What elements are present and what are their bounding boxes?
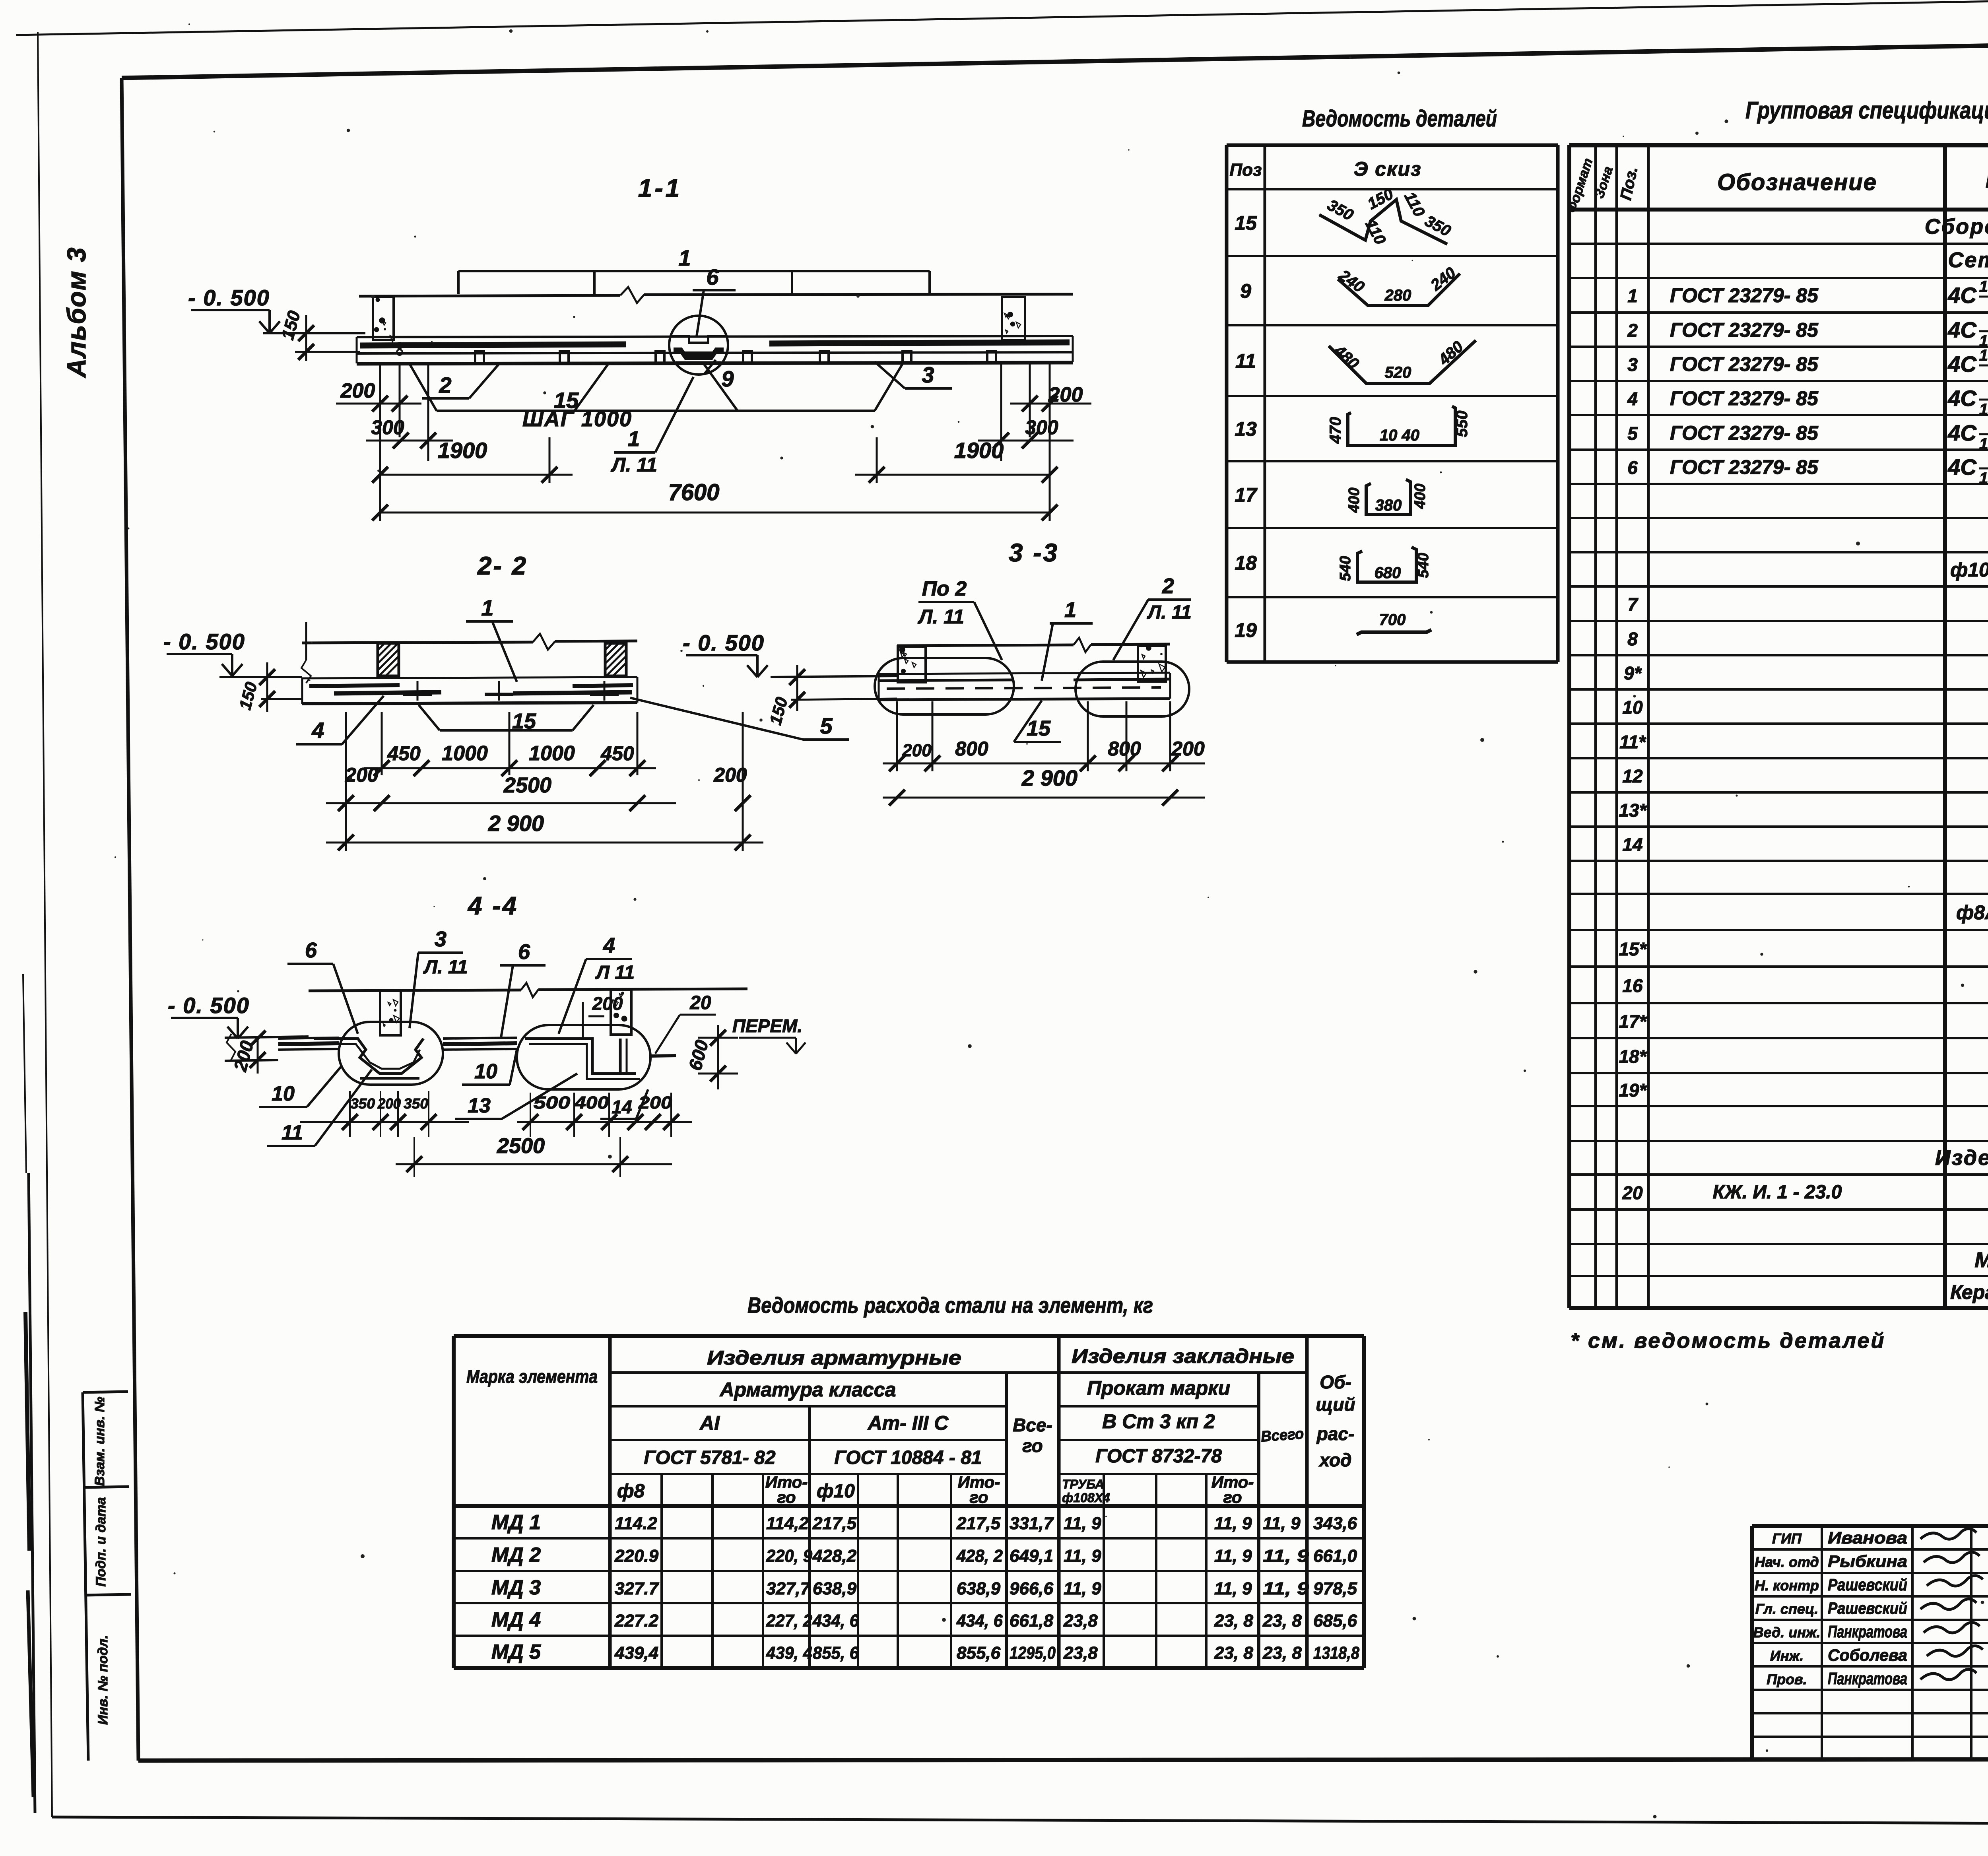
svg-text:16: 16 <box>1622 975 1643 996</box>
svg-text:470: 470 <box>1327 417 1344 444</box>
spec row поз.20 МН9 <box>1622 1180 1988 1203</box>
svg-text:343,6: 343,6 <box>1313 1514 1357 1533</box>
svg-text:661,0: 661,0 <box>1313 1546 1357 1566</box>
svg-text:540: 540 <box>1415 553 1432 578</box>
svg-text:10 40: 10 40 <box>1380 427 1419 444</box>
section 4-4 dimension chains (350/200/350, 500/400, 200, 2500) <box>300 1091 692 1177</box>
signature row Нач. отд Рыбкина <box>1755 1552 1980 1571</box>
section 3-3 left wall block (concrete) <box>898 646 926 682</box>
spec row поз.9* <box>1624 662 1988 683</box>
svg-text:240: 240 <box>1336 266 1368 296</box>
svg-text:Рашевский: Рашевский <box>1828 1599 1907 1617</box>
svg-text:217,5: 217,5 <box>812 1514 857 1533</box>
svg-text:Наименование: Наименование <box>1986 167 1988 193</box>
svg-text:1: 1 <box>481 595 493 620</box>
svg-text:Ведомость деталей: Ведомость деталей <box>1302 106 1497 132</box>
spec row поз.11* <box>1619 731 1988 752</box>
svg-text:327,7: 327,7 <box>766 1579 811 1598</box>
section 1-1 central joint detail circle <box>669 316 728 375</box>
svg-text:Поз.: Поз. <box>1617 165 1641 202</box>
svg-text:3: 3 <box>922 362 934 387</box>
svg-text:15: 15 <box>1027 716 1051 740</box>
spec row поз.3 <box>1627 347 1988 384</box>
svg-text:200: 200 <box>638 1093 672 1112</box>
section 3-3 label 1 <box>1042 598 1093 681</box>
section 2-2 label 4 <box>296 696 384 744</box>
details list table frame <box>1227 145 1558 662</box>
section 4-4 label 6 (left) <box>287 938 358 1034</box>
svg-text:Сетки арматурные: Сетки арматурные <box>1948 248 1988 272</box>
svg-text:Сборочные единицы: Сборочные единицы <box>1925 215 1988 239</box>
svg-text:Об-: Об- <box>1320 1372 1351 1392</box>
spec row поз.18* <box>1619 1045 1988 1067</box>
svg-text:500: 500 <box>534 1093 571 1112</box>
svg-text:380: 380 <box>1375 497 1402 514</box>
svg-text:150: 150 <box>235 680 261 712</box>
svg-text:800: 800 <box>955 738 988 760</box>
svg-text:434, 6: 434, 6 <box>812 1611 859 1631</box>
svg-text:ГОСТ 23279- 85: ГОСТ 23279- 85 <box>1670 387 1819 410</box>
section 4-4 right wall block (concrete) <box>611 990 631 1035</box>
svg-text:13: 13 <box>1235 418 1257 440</box>
svg-text:Нач. отд: Нач. отд <box>1755 1554 1819 1570</box>
svg-text:ф10: ф10 <box>817 1481 855 1502</box>
svg-text:2 900: 2 900 <box>488 811 544 836</box>
steel table row МД 5 <box>491 1641 1360 1664</box>
sketch pos.17: U-bar with hooks 400/380/400 <box>1346 480 1429 514</box>
svg-text:Л. 11: Л. 11 <box>611 454 657 476</box>
svg-text:ПЕРЕМ.: ПЕРЕМ. <box>732 1015 802 1036</box>
signature row Инж. Соболева <box>1770 1646 1983 1664</box>
svg-text:4С: 4С <box>1947 420 1977 445</box>
svg-text:11, 9: 11, 9 <box>1064 1579 1101 1598</box>
svg-text:331,7: 331,7 <box>1010 1514 1054 1533</box>
svg-text:15*: 15* <box>1619 939 1647 959</box>
spec row поз.12 <box>1622 765 1988 786</box>
spec row поз.7 <box>1627 593 1988 615</box>
svg-text:600: 600 <box>684 1038 712 1073</box>
svg-text:Все-: Все- <box>1013 1415 1052 1435</box>
section 3-3 label По 2 / Л.11 <box>918 577 1002 660</box>
svg-text:Всего: Всего <box>1260 1425 1305 1445</box>
sketch pos.11: trough bar 480/520/480 <box>1329 338 1476 383</box>
svg-text:ГОСТ 23279- 85: ГОСТ 23279- 85 <box>1670 422 1819 444</box>
svg-text:23, 8: 23, 8 <box>1262 1611 1302 1631</box>
svg-text:Панкратова: Панкратова <box>1828 1622 1907 1641</box>
section 1-1 left wall block (concrete) <box>373 297 394 340</box>
svg-text:1: 1 <box>1627 285 1638 306</box>
svg-text:1900: 1900 <box>438 438 487 463</box>
svg-text:ТРУБА: ТРУБА <box>1062 1477 1104 1491</box>
svg-text:КЖ. И. 1 - 23.0: КЖ. И. 1 - 23.0 <box>1713 1182 1842 1203</box>
svg-text:1: 1 <box>678 245 691 270</box>
svg-text:11, 9: 11, 9 <box>1263 1546 1309 1566</box>
svg-text:ГОСТ 23279- 85: ГОСТ 23279- 85 <box>1670 284 1819 307</box>
svg-text:10Ат-IIIС-200: 10Ат-IIIС-200 <box>1979 435 1988 453</box>
svg-text:700: 700 <box>1379 611 1406 629</box>
svg-text:10Ат-IIIС-200: 10Ат-IIIС-200 <box>1979 401 1988 418</box>
section 4-4 label 4 / Л.11 <box>559 934 635 1034</box>
section 1-1 floor level line <box>359 287 1073 303</box>
svg-text:17*: 17* <box>1619 1011 1647 1032</box>
svg-text:327.7: 327.7 <box>615 1579 660 1598</box>
section 2-2 right wall block (hatched) <box>605 643 626 676</box>
svg-text:428,2: 428,2 <box>812 1546 857 1566</box>
title block signature grid <box>1752 1526 1988 1760</box>
svg-text:649,1: 649,1 <box>1010 1546 1053 1566</box>
section 1-1 label 1/Л.11 <box>611 377 693 476</box>
svg-text:11: 11 <box>1235 350 1256 372</box>
section 4-4 small dims 200 / 20 / ПЕРЕМ. / 600 <box>583 992 806 1089</box>
svg-text:114,2: 114,2 <box>766 1514 809 1533</box>
svg-text:10: 10 <box>1622 697 1643 718</box>
svg-text:Изделия закладные: Изделия закладные <box>1935 1146 1988 1170</box>
svg-text:Л. 11: Л. 11 <box>423 957 468 978</box>
svg-text:1: 1 <box>628 427 640 451</box>
section 1-1 elevation mark -0.500 <box>188 285 365 361</box>
svg-text:520: 520 <box>1385 364 1411 381</box>
svg-text:ГОСТ 23279- 85: ГОСТ 23279- 85 <box>1670 353 1819 375</box>
svg-text:18*: 18* <box>1619 1046 1647 1067</box>
section 3-3 right pill detail outline <box>1076 662 1189 716</box>
svg-text:Н. контр: Н. контр <box>1755 1577 1819 1594</box>
svg-text:2: 2 <box>439 373 451 398</box>
svg-text:4: 4 <box>603 934 615 957</box>
svg-text:4: 4 <box>1627 388 1638 409</box>
section 2-2 elevation mark -0.500 <box>163 629 302 712</box>
svg-text:го: го <box>1022 1435 1043 1456</box>
svg-text:550: 550 <box>1453 411 1471 437</box>
section 1-1 label 3 <box>875 362 952 388</box>
svg-text:ход: ход <box>1318 1450 1352 1470</box>
svg-text:800: 800 <box>1108 738 1141 760</box>
svg-text:- 0. 500: - 0. 500 <box>683 630 765 655</box>
svg-text:Рашевский: Рашевский <box>1828 1575 1907 1594</box>
svg-text:10: 10 <box>272 1082 295 1105</box>
svg-text:ф8: ф8 <box>617 1481 645 1502</box>
section 1-1 dimension chain left (200/300/1900/7600) <box>336 362 1058 521</box>
svg-text:По 2: По 2 <box>922 577 967 600</box>
svg-text:434, 6: 434, 6 <box>956 1611 1003 1631</box>
svg-text:Изделия закладные: Изделия закладные <box>1072 1345 1294 1367</box>
svg-text:400: 400 <box>574 1093 609 1112</box>
svg-text:11: 11 <box>282 1121 303 1144</box>
svg-text:Э скиз: Э скиз <box>1353 158 1421 180</box>
svg-text:4С: 4С <box>1947 454 1977 480</box>
svg-text:638,9: 638,9 <box>813 1579 857 1598</box>
section 4-4 center wall block (concrete) <box>380 991 401 1035</box>
svg-text:11, 9: 11, 9 <box>1214 1514 1252 1533</box>
svg-text:Л 11: Л 11 <box>595 962 635 983</box>
svg-text:14: 14 <box>612 1097 632 1117</box>
section 2-2 floor level line with break <box>301 622 637 683</box>
svg-text:Панкратова: Панкратова <box>1828 1669 1907 1688</box>
spec row поз.5 <box>1627 415 1988 454</box>
svg-text:20: 20 <box>689 992 711 1013</box>
svg-text:1318,8: 1318,8 <box>1313 1643 1359 1663</box>
svg-text:В Ст 3 кп 2: В Ст 3 кп 2 <box>1102 1410 1215 1433</box>
svg-text:685,6: 685,6 <box>1313 1611 1357 1631</box>
svg-text:4С: 4С <box>1947 317 1977 342</box>
svg-text:АI: АI <box>699 1412 720 1434</box>
svg-text:13: 13 <box>468 1094 491 1117</box>
spec row поз.17* <box>1619 1010 1988 1032</box>
svg-text:10Ат-IIIС-200: 10Ат-IIIС-200 <box>1979 278 1988 295</box>
section 3-3 floor level line with break <box>897 638 1170 652</box>
svg-text:7: 7 <box>1627 594 1639 615</box>
section 2-2 left wall block (hatched) <box>378 643 399 676</box>
steel table row МД 1 <box>491 1511 1357 1534</box>
svg-text:12: 12 <box>1622 766 1643 786</box>
svg-text:щий: щий <box>1316 1394 1355 1415</box>
svg-text:855, 6: 855, 6 <box>813 1643 859 1663</box>
svg-text:ф108X4: ф108X4 <box>1062 1491 1110 1505</box>
svg-text:1-1: 1-1 <box>638 174 682 202</box>
svg-text:110: 110 <box>1401 189 1428 219</box>
section 3-3 slab body <box>879 673 1170 700</box>
section 2-2 dimension chain (450/1000/1000/450, 2500, 200, 2900) <box>326 712 763 851</box>
svg-text:4: 4 <box>311 718 324 743</box>
svg-text:8: 8 <box>1627 629 1638 649</box>
svg-text:ф8АI ГОСТ 5781- 82: ф8АI ГОСТ 5781- 82 <box>1956 901 1988 924</box>
section 1-1 right wall block (concrete) <box>1002 297 1025 340</box>
svg-text:9*: 9* <box>1624 663 1642 683</box>
svg-text:Ведомость расхода стали на эле: Ведомость расхода стали на элемент, кг <box>747 1293 1153 1318</box>
svg-text:11, 9: 11, 9 <box>1263 1514 1301 1533</box>
left margin stamp strip (Взам.инв / Подп.и дата / Инв.№ подл) <box>83 1392 131 1761</box>
sketch pos.9: shallow trough bar 240/280/240 <box>1336 264 1460 305</box>
svg-text:3 -3: 3 -3 <box>1009 538 1059 567</box>
spec row поз.1 <box>1627 278 1988 316</box>
svg-text:10Ат-IIIС-200: 10Ат-IIIС-200 <box>1979 347 1988 364</box>
section 1-1 panel bracket with label 1 <box>458 245 930 294</box>
svg-text:220, 9: 220, 9 <box>766 1546 812 1566</box>
signature row Гл. спец. Рашевский <box>1755 1599 1976 1617</box>
svg-text:439,4: 439,4 <box>614 1643 658 1663</box>
section 1-1 label 6 with leader <box>693 264 736 336</box>
svg-text:ф10-Ат-IIIС ГОСТ 10884- 81: ф10-Ат-IIIС ГОСТ 10884- 81 <box>1950 559 1988 581</box>
spec row поз.13* <box>1619 799 1988 821</box>
spec row поз.2 <box>1627 313 1988 350</box>
svg-text:1000: 1000 <box>529 742 575 765</box>
spec row поз.6 <box>1627 450 1988 487</box>
svg-text:428, 2: 428, 2 <box>956 1546 1003 1566</box>
svg-text:6: 6 <box>305 938 317 962</box>
svg-text:23,8: 23,8 <box>1063 1643 1098 1663</box>
spec row поз.14 <box>1622 833 1988 855</box>
svg-text:Альбом 3: Альбом 3 <box>62 247 91 379</box>
svg-text:Л. 11: Л. 11 <box>918 606 964 628</box>
svg-text:11, 9: 11, 9 <box>1263 1579 1309 1598</box>
svg-text:680: 680 <box>1375 564 1401 582</box>
section 1-1 label 2 <box>422 363 500 398</box>
svg-text:6: 6 <box>706 264 719 289</box>
svg-text:2- 2: 2- 2 <box>477 551 528 580</box>
svg-text:ГОСТ 23279- 85: ГОСТ 23279- 85 <box>1670 456 1819 478</box>
svg-text:23,8: 23,8 <box>1063 1611 1098 1631</box>
spec row поз.15* <box>1619 938 1988 959</box>
svg-text:11, 9: 11, 9 <box>1214 1546 1252 1566</box>
svg-text:6: 6 <box>1627 457 1638 478</box>
steel table headers <box>466 1345 1355 1507</box>
section 1-1 stirrup marks <box>475 351 996 362</box>
svg-text:Пров.: Пров. <box>1767 1671 1807 1687</box>
svg-text:280: 280 <box>1384 287 1411 304</box>
svg-text:480: 480 <box>1330 342 1362 373</box>
spec table column headers <box>1564 152 1988 215</box>
svg-text:18: 18 <box>1235 552 1257 574</box>
svg-text:400: 400 <box>1412 483 1429 509</box>
svg-text:14: 14 <box>1622 834 1642 855</box>
svg-text:350: 350 <box>404 1095 428 1112</box>
svg-text:439, 4: 439, 4 <box>766 1643 812 1663</box>
section 2-2 label 1 with leader <box>466 595 517 682</box>
svg-text:2 900: 2 900 <box>1021 765 1077 790</box>
sketch pos.19: straight bar 700 <box>1357 611 1431 635</box>
section 4-4 upper floor line with break <box>309 983 747 997</box>
svg-text:Инж.: Инж. <box>1770 1648 1804 1664</box>
svg-text:ГОСТ 23279- 85: ГОСТ 23279- 85 <box>1670 319 1819 341</box>
svg-text:9: 9 <box>1240 280 1251 302</box>
signature row ГИП Иванова <box>1772 1528 1976 1547</box>
svg-text:23, 8: 23, 8 <box>1262 1643 1302 1663</box>
steel consumption table grid <box>454 1336 1364 1668</box>
svg-text:Иванова: Иванова <box>1828 1528 1907 1547</box>
spec row поз.4 <box>1627 381 1988 419</box>
svg-text:200: 200 <box>340 379 375 402</box>
svg-text:ГИП: ГИП <box>1772 1530 1802 1547</box>
spec row поз.19* <box>1619 1079 1988 1101</box>
spec row поз.10 <box>1622 696 1988 718</box>
svg-text:17: 17 <box>1235 484 1258 506</box>
svg-text:1295,0: 1295,0 <box>1010 1643 1056 1663</box>
svg-text:4С: 4С <box>1947 351 1977 377</box>
svg-text:Изделия арматурные: Изделия арматурные <box>707 1347 961 1369</box>
section 4-4 slab between pills <box>278 1038 676 1056</box>
section 2-2 шаг marker trapezoid with label 15 <box>419 705 594 733</box>
svg-text:300: 300 <box>371 416 404 439</box>
svg-text:15: 15 <box>1235 212 1257 234</box>
svg-text:6: 6 <box>518 940 530 964</box>
section 2-2 slab body with rebar <box>302 677 637 704</box>
section 4-4 right pill detail <box>517 1025 650 1089</box>
svg-text:20: 20 <box>1622 1182 1643 1203</box>
svg-text:966,6: 966,6 <box>1010 1579 1054 1598</box>
svg-text:23, 8: 23, 8 <box>1214 1643 1253 1663</box>
svg-text:Соболева: Соболева <box>1828 1646 1907 1664</box>
svg-text:450: 450 <box>387 742 421 765</box>
svg-text:13*: 13* <box>1619 800 1647 821</box>
svg-text:4С: 4С <box>1947 283 1977 308</box>
svg-text:го: го <box>777 1488 796 1507</box>
section 4-4 labels 10/11/13/14/10 <box>259 1050 648 1146</box>
svg-text:1000: 1000 <box>442 742 488 765</box>
section 3-3 label 2 / Л.11 <box>1113 574 1192 660</box>
svg-text:Подп. и дата: Подп. и дата <box>93 1497 109 1586</box>
svg-text:855,6: 855,6 <box>957 1643 1001 1663</box>
section 3-3 dimension chain (800/200/800, 800, 200, 2900) <box>883 701 1205 806</box>
section 1-1 label 9 <box>705 360 734 391</box>
svg-text:Арматура класса: Арматура класса <box>719 1378 896 1401</box>
svg-text:9: 9 <box>721 366 734 391</box>
svg-text:Поз: Поз <box>1230 160 1262 180</box>
svg-text:240: 240 <box>1427 264 1459 294</box>
svg-text:350: 350 <box>1422 212 1454 240</box>
svg-text:114.2: 114.2 <box>615 1514 657 1533</box>
svg-text:217,5: 217,5 <box>956 1514 1001 1533</box>
svg-text:рас-: рас- <box>1316 1423 1355 1444</box>
svg-text:МД 4: МД 4 <box>491 1608 541 1631</box>
svg-text:7600: 7600 <box>668 480 719 505</box>
svg-text:ГОСТ 10884 - 81: ГОСТ 10884 - 81 <box>834 1447 982 1468</box>
svg-text:150: 150 <box>766 695 791 727</box>
svg-text:ГОСТ 8732-78: ГОСТ 8732-78 <box>1095 1446 1222 1467</box>
svg-text:227, 2: 227, 2 <box>766 1611 812 1631</box>
section 4-4 elevation mark -0.500 <box>168 993 266 1074</box>
svg-text:Материалы: Материалы <box>1974 1248 1988 1272</box>
signature row Н. контр Рашевский <box>1755 1575 1983 1594</box>
svg-text:200: 200 <box>592 993 623 1014</box>
spec row: Керамзитобетон кл. В 15 <box>1950 1281 1988 1303</box>
svg-text:10Ат-IIIС-200: 10Ат-IIIС-200 <box>1979 470 1988 487</box>
svg-text:- 0. 500: - 0. 500 <box>168 993 250 1018</box>
svg-text:Гл. спец.: Гл. спец. <box>1755 1601 1818 1617</box>
section 4-4 left break edge <box>225 1034 309 1061</box>
sketch pos.15: Z-bent bar 350/110/150/110/350 <box>1319 185 1454 247</box>
svg-text:200: 200 <box>713 764 747 786</box>
svg-text:5: 5 <box>1627 423 1638 444</box>
svg-text:661,8: 661,8 <box>1010 1611 1054 1631</box>
section 3-3 left pill detail outline <box>875 658 1014 714</box>
signature row Пров. Панкратова <box>1767 1669 1976 1688</box>
svg-text:4 -4: 4 -4 <box>467 891 518 920</box>
svg-text:- 0. 500: - 0. 500 <box>163 629 245 654</box>
svg-text:Вед. инж.: Вед. инж. <box>1753 1624 1821 1641</box>
section 2-2 label 5 <box>630 698 849 740</box>
svg-text:- 0. 500: - 0. 500 <box>188 285 270 310</box>
title block outer frame <box>1752 1526 1988 1760</box>
svg-text:227.2: 227.2 <box>614 1611 659 1631</box>
svg-text:350: 350 <box>350 1095 375 1112</box>
svg-text:978,5: 978,5 <box>1313 1579 1357 1598</box>
section 3-3 label 15 <box>1014 701 1061 742</box>
svg-text:МД 5: МД 5 <box>491 1641 541 1664</box>
section 4-4 label 6 (center) <box>500 940 546 1038</box>
steel table row МД 3 <box>491 1576 1357 1599</box>
svg-text:1900: 1900 <box>954 438 1004 463</box>
svg-text:Групповая спецификация для мон: Групповая спецификация для монолитных эл… <box>1745 97 1988 124</box>
svg-text:300: 300 <box>1025 416 1058 439</box>
svg-text:11, 9: 11, 9 <box>1064 1546 1101 1566</box>
svg-text:11*: 11* <box>1619 732 1646 752</box>
section 1-1 шаг 1000 spacing marker <box>410 364 903 431</box>
svg-text:5: 5 <box>820 713 833 738</box>
svg-text:4С: 4С <box>1947 386 1977 411</box>
section 3-3 right wall block (concrete) <box>1138 646 1166 681</box>
svg-text:19: 19 <box>1235 619 1257 641</box>
svg-text:3: 3 <box>435 927 447 951</box>
steel table row МД 2 <box>491 1543 1357 1567</box>
svg-text:го: го <box>1223 1488 1242 1507</box>
steel table row МД 4 <box>491 1608 1357 1631</box>
svg-text:Взам. инв. №: Взам. инв. № <box>92 1397 107 1486</box>
svg-text:Прокат марки: Прокат марки <box>1087 1377 1230 1399</box>
section 4-4 label 3 / Л.11 <box>410 927 468 1028</box>
section 1-1 slab body <box>357 336 1073 364</box>
signature row Вед. инж. Панкратова <box>1753 1622 1980 1641</box>
svg-text:МД 3: МД 3 <box>491 1576 541 1599</box>
svg-text:19*: 19* <box>1619 1080 1647 1101</box>
